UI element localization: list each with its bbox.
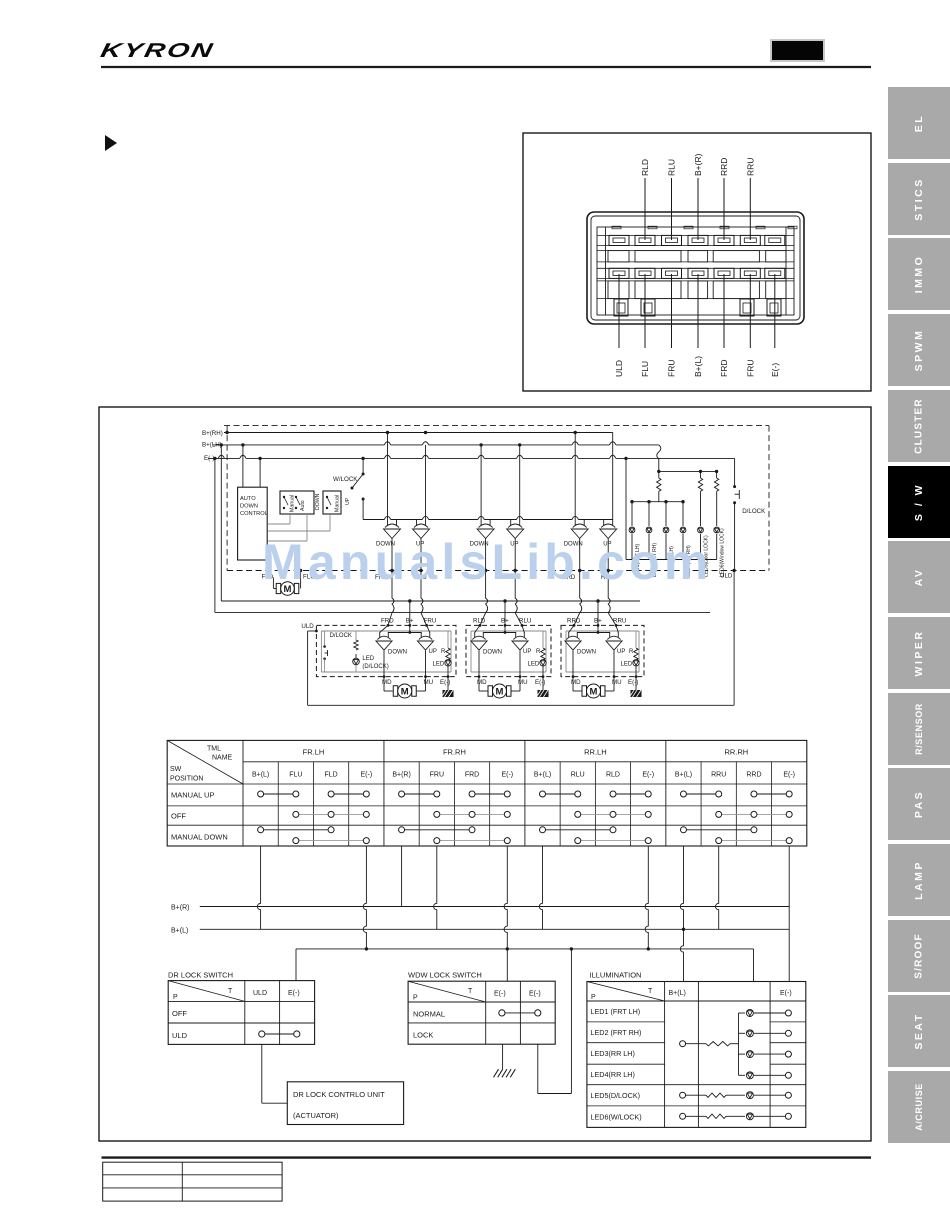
connector top pin 2 bbox=[635, 235, 655, 245]
LED 3 bbox=[665, 502, 667, 526]
svg-text:FRU: FRU bbox=[667, 360, 677, 377]
drop E(-) col2 to WDW switch bbox=[504, 846, 507, 981]
svg-text:FRU: FRU bbox=[745, 360, 755, 377]
module 1 input wires bbox=[388, 571, 394, 626]
module 1 D/LOCK resistor bbox=[354, 640, 358, 650]
svg-text:LED: LED bbox=[621, 661, 633, 667]
svg-text:E(-): E(-) bbox=[783, 772, 795, 779]
connector bottom pin 1 bbox=[609, 268, 629, 278]
module 2 B+ tee bbox=[483, 632, 515, 634]
svg-text:R: R bbox=[441, 649, 446, 655]
svg-text:RRD: RRD bbox=[567, 618, 581, 625]
wire B+(LH) to control bbox=[242, 445, 244, 487]
svg-text:RLD: RLD bbox=[640, 159, 650, 176]
table contacts group 3 MANUAL UP bbox=[543, 793, 578, 795]
svg-text:RLU: RLU bbox=[519, 618, 531, 625]
svg-text:MD: MD bbox=[571, 679, 581, 686]
LED return rail bbox=[626, 559, 717, 561]
svg-text:B+: B+ bbox=[406, 618, 414, 625]
svg-text:UP: UP bbox=[523, 649, 531, 655]
svg-text:NORMAL: NORMAL bbox=[413, 1010, 445, 1019]
svg-text:ULD: ULD bbox=[614, 360, 624, 377]
svg-text:MD: MD bbox=[477, 679, 487, 686]
module 2 ground bbox=[538, 690, 549, 697]
module 1 internal top rail bbox=[321, 630, 451, 632]
svg-text:T: T bbox=[648, 988, 653, 995]
module 1 LED D/LOCK bbox=[353, 658, 360, 665]
connector key slots row1 bbox=[608, 251, 629, 262]
power window main connector body bbox=[587, 212, 804, 324]
svg-text:B+(L): B+(L) bbox=[675, 772, 692, 779]
module 2 input wires bbox=[480, 571, 488, 626]
riser pair 1 UP outer stub bbox=[425, 445, 427, 520]
wire switch drop bbox=[289, 514, 291, 524]
module 3 driver UP bbox=[606, 632, 622, 650]
svg-text:B+(L): B+(L) bbox=[171, 927, 188, 934]
module 3 UP output bbox=[613, 651, 615, 677]
connector bottom pin 7 bbox=[765, 268, 785, 278]
LED return to E(-) bbox=[625, 458, 627, 559]
svg-text:RRD: RRD bbox=[719, 158, 729, 176]
footer revision table bbox=[103, 1162, 282, 1201]
svg-text:M: M bbox=[401, 686, 409, 697]
svg-text:OFF: OFF bbox=[172, 1009, 187, 1018]
svg-text:POSITION: POSITION bbox=[170, 776, 203, 783]
wire ULD down bbox=[733, 571, 735, 706]
svg-text:B+(RH): B+(RH) bbox=[202, 430, 223, 437]
module 2 internal bottom rail bbox=[471, 671, 546, 673]
svg-text:P: P bbox=[173, 994, 178, 1001]
D/LOCK contact bar bbox=[738, 490, 740, 499]
svg-text:LED: LED bbox=[362, 656, 374, 662]
svg-text:(D/LOCK): (D/LOCK) bbox=[362, 664, 388, 670]
svg-text:AUTO: AUTO bbox=[240, 496, 256, 502]
svg-text:B+(L): B+(L) bbox=[534, 772, 551, 779]
wire control to switch bbox=[268, 530, 330, 532]
table contacts group 2 MANUAL UP bbox=[402, 793, 437, 795]
WDW LOCK contacts bbox=[502, 1012, 538, 1014]
svg-text:LED: LED bbox=[528, 661, 540, 667]
connector bottom pin 3 bbox=[662, 268, 682, 278]
svg-text:LED6(Window LOCK): LED6(Window LOCK) bbox=[720, 528, 726, 577]
riser pair 3 UP outer stub bbox=[612, 433, 614, 520]
riser pair 3 DOWN outer stub bbox=[574, 433, 576, 520]
DR LOCK contacts bbox=[262, 1033, 297, 1035]
svg-text:P: P bbox=[413, 995, 418, 1002]
module 1 internal bottom rail bbox=[321, 671, 451, 673]
table contacts group 1 MANUAL UP bbox=[261, 793, 296, 795]
svg-text:MU: MU bbox=[424, 679, 434, 686]
table contacts group 2 OFF bbox=[437, 813, 507, 815]
dashed box right edge bbox=[768, 426, 770, 571]
B+(LH) jog to resistors bbox=[657, 445, 661, 459]
wire B+(LH) left drop bbox=[220, 445, 222, 601]
LED 5 bbox=[700, 491, 702, 526]
wire FLD to motor bbox=[272, 577, 274, 588]
svg-text:FRU: FRU bbox=[424, 618, 437, 625]
left return riser bbox=[307, 631, 309, 705]
E(-) rail bbox=[208, 457, 735, 459]
illumination LED6 circuit bbox=[680, 1113, 686, 1119]
svg-text:E(-): E(-) bbox=[360, 772, 372, 779]
riser pair 2 UP outer stub bbox=[519, 445, 521, 520]
module 1 driver DOWN bbox=[376, 632, 392, 650]
E(-) down to D/LOCK bbox=[734, 458, 736, 486]
svg-text:OFF: OFF bbox=[171, 812, 186, 821]
module 3 input wires bbox=[574, 571, 582, 626]
diagonal bbox=[408, 981, 486, 1002]
main switch table bbox=[167, 740, 807, 846]
LED6(Window LOCK) bbox=[714, 527, 720, 533]
table contacts group 1 MANUAL DOWN bbox=[261, 829, 331, 831]
connector bottom lock tabs bbox=[614, 299, 628, 316]
driver UP 3 bbox=[600, 520, 617, 539]
pin label E(-) leader bbox=[774, 274, 776, 348]
auto down control unit bbox=[238, 487, 268, 560]
B+ rail to window modules bbox=[221, 600, 640, 602]
svg-text:B+: B+ bbox=[594, 618, 602, 625]
svg-text:D/LOCK: D/LOCK bbox=[742, 508, 766, 515]
svg-text:LED2 (FRT RH): LED2 (FRT RH) bbox=[591, 1028, 642, 1037]
svg-text:E(-): E(-) bbox=[529, 991, 541, 998]
svg-text:ULD: ULD bbox=[301, 623, 314, 630]
module 3 driver DOWN bbox=[565, 632, 581, 650]
driver UP 1 bbox=[413, 520, 430, 539]
connector band lines bbox=[597, 234, 794, 236]
wire WDW E(-) return bbox=[537, 1044, 539, 1093]
svg-text:ULD: ULD bbox=[172, 1031, 188, 1040]
LED 6 bbox=[716, 491, 718, 526]
connector top pin 5 bbox=[714, 235, 734, 245]
E(-) collector rail bbox=[296, 948, 754, 950]
connector key slots row2 bbox=[608, 281, 629, 299]
module 2 driver UP bbox=[512, 632, 528, 650]
LED1-4 rail bbox=[632, 501, 683, 503]
svg-text:M: M bbox=[590, 686, 598, 697]
svg-text:MD: MD bbox=[382, 679, 392, 686]
svg-text:E(-): E(-) bbox=[494, 991, 506, 998]
table contacts group 4 OFF bbox=[719, 813, 789, 815]
module 2 LED bbox=[540, 660, 546, 666]
module 1 DOWN output bbox=[383, 651, 385, 677]
driver common bus from W/LOCK bbox=[363, 519, 613, 521]
B+(L) bus line bbox=[200, 928, 789, 930]
LED5(Door LOCK) bbox=[698, 527, 704, 533]
svg-text:T: T bbox=[228, 988, 233, 995]
connector bottom pin 5 bbox=[714, 268, 734, 278]
svg-text:MU: MU bbox=[518, 679, 528, 686]
illumination resistor LED1-4 bbox=[706, 1042, 730, 1046]
motor M front left bbox=[276, 582, 299, 596]
output pair 3 down bbox=[579, 539, 581, 571]
output pair 1 down bbox=[391, 539, 393, 571]
svg-text:FRD: FRD bbox=[381, 618, 394, 625]
connector top pin 7 bbox=[765, 235, 785, 245]
svg-text:E(-): E(-) bbox=[770, 363, 780, 377]
svg-text:RRU: RRU bbox=[711, 772, 726, 779]
illumination LED5 circuit bbox=[680, 1092, 686, 1098]
wire D/LOCK to ULD node bbox=[734, 503, 736, 571]
svg-text:B+(R): B+(R) bbox=[693, 153, 703, 176]
LED 2 bbox=[648, 502, 650, 526]
LED 4 bbox=[682, 502, 684, 526]
svg-text:RR.RH: RR.RH bbox=[724, 748, 748, 757]
svg-text:FR.RH: FR.RH bbox=[443, 748, 466, 757]
diagonal bbox=[587, 982, 665, 1002]
module 1 motor M bbox=[393, 684, 416, 698]
svg-text:FLU: FLU bbox=[289, 772, 302, 779]
table contacts group 4 MANUAL DOWN bbox=[683, 829, 753, 831]
window module 1: dashed box bbox=[316, 625, 456, 676]
module 1 B+ tee bbox=[388, 632, 421, 634]
svg-text:RRU: RRU bbox=[613, 618, 626, 625]
dashed box bottom edge bbox=[227, 570, 769, 572]
main circuit outer box bbox=[99, 407, 871, 1141]
connector top vent ticks bbox=[612, 226, 621, 229]
svg-text:FRD: FRD bbox=[465, 772, 479, 779]
wire W/LOCK to driver bus bbox=[362, 499, 364, 520]
E(-) rail right drop bbox=[753, 949, 755, 982]
svg-text:DOWN: DOWN bbox=[315, 493, 321, 510]
wire E(-) to control bbox=[259, 458, 261, 487]
svg-text:DR LOCK SWITCH: DR LOCK SWITCH bbox=[168, 971, 233, 980]
driver DOWN 2 bbox=[477, 520, 494, 539]
driver DOWN 3 bbox=[571, 520, 588, 539]
riser pair 2 DOWN outer stub bbox=[480, 445, 482, 520]
svg-text:LOCK: LOCK bbox=[413, 1031, 433, 1040]
wire control to switch 2 bbox=[268, 540, 307, 542]
drop RRU col4 bbox=[716, 846, 719, 929]
svg-text:RLD: RLD bbox=[606, 772, 620, 779]
svg-text:LED5(D/LOCK): LED5(D/LOCK) bbox=[591, 1091, 641, 1100]
illumination LED4 bbox=[739, 1074, 746, 1076]
svg-text:MANUAL DOWN: MANUAL DOWN bbox=[171, 833, 228, 842]
module 3 internal bottom rail bbox=[566, 671, 639, 673]
svg-text:ULD: ULD bbox=[253, 990, 267, 997]
module 3 LED bbox=[633, 660, 639, 666]
svg-text:NAME: NAME bbox=[212, 755, 233, 762]
svg-text:W/LOCK: W/LOCK bbox=[333, 476, 358, 483]
module 1 driver UP bbox=[417, 632, 433, 650]
module 3 B+ tee bbox=[577, 632, 609, 634]
svg-text:E(-): E(-) bbox=[288, 990, 300, 997]
svg-text:LED4(RR LH): LED4(RR LH) bbox=[591, 1070, 635, 1079]
resistor R2 LED5 bbox=[698, 478, 702, 491]
svg-text:DOWN: DOWN bbox=[577, 650, 596, 656]
connector bottom pin 4 bbox=[688, 268, 708, 278]
svg-text:B+: B+ bbox=[501, 618, 509, 625]
module 2 motor M bbox=[488, 684, 511, 698]
svg-text:FLU: FLU bbox=[640, 361, 650, 377]
pin label RRD leader bbox=[723, 178, 725, 240]
dashed box left edge bbox=[226, 426, 228, 571]
svg-text:CONTROL: CONTROL bbox=[240, 511, 268, 517]
LED2(FRT RH) bbox=[646, 527, 652, 533]
svg-text:E(-): E(-) bbox=[628, 679, 638, 686]
svg-text:UP: UP bbox=[345, 497, 351, 505]
resistor R3 LED6 bbox=[714, 478, 718, 491]
connector bottom pin 6 bbox=[740, 268, 760, 278]
svg-text:R: R bbox=[536, 649, 541, 655]
svg-text:MU: MU bbox=[612, 679, 622, 686]
svg-text:B+(R): B+(R) bbox=[392, 772, 410, 779]
table contacts group 1 OFF bbox=[296, 813, 366, 815]
drop B+(L) col3 bbox=[539, 846, 542, 929]
svg-text:WDW LOCK SWITCH: WDW LOCK SWITCH bbox=[408, 971, 482, 980]
svg-text:DOWN: DOWN bbox=[388, 650, 407, 656]
ground below WDW LOCK switch bbox=[502, 1044, 504, 1069]
illumination resistor LED6 bbox=[706, 1114, 726, 1118]
svg-text:B+(L): B+(L) bbox=[669, 990, 686, 997]
pin label FRU leader bbox=[671, 274, 673, 348]
svg-text:T: T bbox=[468, 988, 473, 995]
svg-text:B+(R): B+(R) bbox=[171, 905, 189, 912]
header rule bbox=[101, 66, 871, 68]
illumination resistor LED5 bbox=[706, 1093, 726, 1097]
drop FRU col2 bbox=[434, 846, 437, 929]
svg-text:E(-): E(-) bbox=[535, 679, 545, 686]
svg-text:M: M bbox=[496, 686, 504, 697]
drop E(-) col4 to illumination bbox=[788, 846, 790, 982]
svg-text:Manual: Manual bbox=[290, 495, 296, 512]
svg-text:DOWN: DOWN bbox=[483, 650, 502, 656]
bottom return wire bbox=[308, 704, 734, 706]
svg-text:RLU: RLU bbox=[667, 159, 677, 176]
svg-text:RR.LH: RR.LH bbox=[584, 748, 607, 757]
illumination LED2 bbox=[739, 1032, 746, 1034]
driver UP 2 bbox=[507, 520, 524, 539]
output pair 2 down bbox=[485, 539, 487, 571]
svg-text:RLU: RLU bbox=[571, 772, 585, 779]
drop E(-) col1 bbox=[363, 846, 366, 949]
svg-text:LED6(W/LOCK): LED6(W/LOCK) bbox=[591, 1112, 642, 1121]
riser pair 1 DOWN outer stub bbox=[387, 433, 389, 520]
window module 3: dashed box bbox=[561, 625, 644, 676]
svg-text:LED1 (FRT LH): LED1 (FRT LH) bbox=[591, 1007, 641, 1016]
table contacts group 3 OFF bbox=[578, 813, 648, 815]
svg-text:P: P bbox=[591, 994, 596, 1001]
connector figure outer box bbox=[523, 133, 871, 391]
svg-text:RRU: RRU bbox=[745, 158, 755, 176]
illumination LED1-4 circuit bbox=[680, 1041, 686, 1047]
module 3 DOWN output bbox=[572, 651, 574, 677]
table diagonal header bbox=[167, 740, 243, 784]
svg-text:MANUAL UP: MANUAL UP bbox=[171, 791, 214, 800]
svg-text:D/LOCK: D/LOCK bbox=[330, 633, 352, 639]
module 3 motor M bbox=[582, 684, 605, 698]
connector top pin 6 bbox=[740, 235, 760, 245]
svg-text:FRU: FRU bbox=[430, 772, 444, 779]
connector top pin 4 bbox=[688, 235, 708, 245]
svg-text:RLD: RLD bbox=[473, 618, 486, 625]
table contacts group 2 MANUAL DOWN bbox=[402, 829, 472, 831]
table contacts group 3 MANUAL DOWN bbox=[543, 829, 613, 831]
module 1 ground bbox=[443, 690, 454, 697]
svg-text:RRD: RRD bbox=[746, 772, 761, 779]
svg-text:(ACTUATOR): (ACTUATOR) bbox=[293, 1111, 339, 1120]
connector side rails bbox=[605, 227, 607, 315]
dashed box top edge bbox=[224, 425, 769, 427]
svg-text:Auto: Auto bbox=[300, 500, 306, 511]
illumination LED1 bbox=[739, 1012, 746, 1014]
LED 1 bbox=[631, 502, 633, 526]
svg-text:UP: UP bbox=[617, 649, 625, 655]
svg-text:B+(L): B+(L) bbox=[252, 772, 269, 779]
KYRON logo bbox=[98, 40, 216, 63]
resistor R1 LED1-4 bbox=[657, 478, 661, 491]
pin label RLD leader bbox=[644, 178, 646, 240]
drop B+(R) col2 bbox=[401, 846, 403, 907]
LED1(FRT LH) bbox=[629, 527, 635, 533]
drop B+(L) col1 bbox=[257, 846, 260, 929]
wire ULD to actuator bbox=[261, 1044, 263, 1103]
module 1 LED bbox=[445, 660, 451, 666]
section arrow marker bbox=[105, 135, 117, 151]
svg-text:FR.LH: FR.LH bbox=[303, 748, 325, 757]
pin label B+(R) leader bbox=[697, 178, 699, 240]
pin label FRD leader bbox=[723, 274, 725, 348]
LED4(RR RH) bbox=[680, 527, 686, 533]
B+(LH) rail bbox=[213, 444, 659, 446]
connector bottom pin 2 bbox=[635, 268, 655, 278]
window module 2: dashed box bbox=[466, 625, 551, 676]
wire E(-) left drop bbox=[214, 458, 216, 612]
header black box bbox=[770, 39, 825, 62]
svg-text:E(-): E(-) bbox=[780, 990, 792, 997]
svg-text:Manual: Manual bbox=[335, 495, 341, 512]
connector top pin 1 bbox=[609, 235, 629, 245]
B+(R) bus line bbox=[200, 906, 789, 908]
svg-text:SW: SW bbox=[170, 766, 182, 773]
E(-) rail lower bbox=[215, 611, 710, 613]
pin label FLU leader bbox=[644, 274, 646, 348]
drop B+(L) col4 to illumination bbox=[680, 846, 683, 982]
drop E(-) col3 bbox=[645, 846, 648, 949]
pin label FRU leader bbox=[749, 274, 751, 348]
connector top pin 3 bbox=[662, 235, 682, 245]
switch manual up bbox=[323, 491, 341, 514]
svg-text:LED: LED bbox=[433, 661, 445, 667]
pin label RRU leader bbox=[749, 178, 751, 240]
svg-text:DOWN: DOWN bbox=[240, 504, 258, 510]
wire ULD into module 1 bbox=[308, 630, 317, 632]
switch manual/auto bbox=[280, 491, 314, 514]
svg-text:R: R bbox=[629, 649, 634, 655]
svg-text:FRD: FRD bbox=[719, 360, 729, 377]
svg-text:FLD: FLD bbox=[324, 772, 337, 779]
footer rule bbox=[102, 1156, 872, 1158]
driver DOWN 1 bbox=[384, 520, 401, 539]
module 3 ground bbox=[631, 690, 642, 697]
svg-text:TML: TML bbox=[207, 746, 221, 753]
pin label ULD leader bbox=[618, 274, 620, 348]
illumination LED3 bbox=[739, 1053, 746, 1055]
module 2 driver DOWN bbox=[471, 632, 487, 650]
module 1 UP output bbox=[425, 651, 427, 677]
table contacts group 4 MANUAL UP bbox=[683, 793, 718, 795]
pin label B+(L) leader bbox=[697, 274, 699, 348]
svg-text:ILLUMINATION: ILLUMINATION bbox=[590, 971, 642, 980]
svg-text:B+(L): B+(L) bbox=[693, 356, 703, 377]
DR LOCK CONTROL UNIT box bbox=[287, 1082, 403, 1125]
W/LOCK lever bbox=[352, 474, 363, 488]
svg-text:E(-): E(-) bbox=[440, 679, 450, 686]
module 2 DOWN output bbox=[478, 651, 480, 677]
svg-text:UP: UP bbox=[429, 649, 437, 655]
module 3 internal top rail bbox=[566, 630, 639, 632]
module 2 UP output bbox=[519, 651, 521, 677]
diagonal bbox=[168, 981, 245, 1002]
